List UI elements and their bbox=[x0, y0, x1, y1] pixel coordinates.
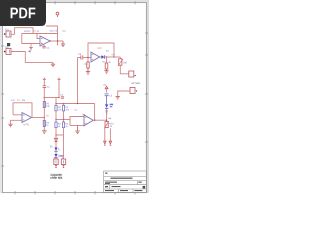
connector J2 bbox=[4, 46, 11, 54]
junction U2 tip bbox=[99, 56, 100, 57]
wire node A vertical rail bbox=[77, 58, 79, 104]
resistor R12 bbox=[62, 120, 68, 128]
frame tick marks left bbox=[1, 46, 4, 166]
wire R9 down bbox=[55, 111, 57, 120]
wire J1 elbow bbox=[11, 28, 33, 35]
wire C5 to D5 bbox=[106, 96, 108, 105]
title block texts bbox=[105, 173, 142, 192]
LED D3 bbox=[54, 142, 59, 152]
connector J4 bbox=[54, 157, 59, 166]
trimmer R16 bbox=[104, 121, 113, 128]
wire rail C2 down to ground bbox=[43, 87, 45, 130]
label VCC bbox=[50, 30, 52, 32]
wire R10 down bbox=[63, 111, 65, 120]
wire VCC1 rail bbox=[46, 26, 58, 46]
capacitor C4 input bbox=[78, 53, 92, 59]
junction low rail bbox=[55, 134, 56, 135]
wire U2 output bbox=[104, 56, 114, 58]
label R3 feedback bbox=[96, 47, 99, 49]
op-amp U2 feedback resistor loop bbox=[88, 43, 114, 58]
wire chains to low rail bbox=[55, 128, 57, 135]
ground GND1 bbox=[61, 41, 65, 47]
label +5V bbox=[62, 30, 63, 31]
op-amp U3 feedback loop bbox=[13, 103, 32, 118]
connector J5 bbox=[61, 157, 65, 166]
PDF badge bbox=[0, 0, 46, 26]
junction U4 output feedback bbox=[94, 120, 95, 121]
connector J1 bbox=[4, 29, 11, 37]
junction U1 output node bbox=[57, 40, 58, 41]
LED D5 bbox=[105, 104, 113, 114]
title block bbox=[104, 171, 147, 193]
wire U1 feedback rail bbox=[22, 33, 58, 35]
trimmer R8 bbox=[114, 57, 127, 66]
wire U4 lower input bbox=[70, 125, 84, 127]
wire right chain down bbox=[63, 135, 65, 159]
wire U3 output bbox=[32, 117, 45, 119]
diode D2 bbox=[54, 135, 57, 142]
op-amp U3 bbox=[22, 113, 32, 123]
power VCC2 arrow bbox=[105, 86, 108, 92]
power VEE1 arrow bbox=[104, 141, 106, 145]
wire U1 plus input drop bbox=[22, 34, 40, 44]
resistor R7 to ground bbox=[103, 57, 111, 69]
label uA meter bbox=[130, 83, 133, 84]
resistor R11 bbox=[55, 120, 61, 128]
junction feedback output bbox=[113, 56, 114, 57]
LED D4 bbox=[54, 151, 59, 158]
junction output LED chain bbox=[106, 120, 107, 121]
label R14 bbox=[17, 99, 18, 101]
label U4 ref bbox=[75, 109, 76, 111]
op-amp U2 bbox=[91, 52, 100, 62]
resistor R5 on rail bbox=[43, 102, 50, 108]
pin dot J4 bbox=[55, 166, 57, 168]
gray margin top bbox=[0, 0, 149, 2]
wire D5 down bbox=[106, 108, 108, 121]
page background bbox=[0, 0, 149, 198]
terminal post T2 bbox=[58, 78, 61, 80]
gray margin left bbox=[0, 2, 2, 193]
label node 0 bbox=[29, 51, 31, 53]
op-amp U4 bbox=[84, 115, 93, 126]
ground GND7 bbox=[116, 97, 120, 100]
label R2 bbox=[33, 30, 34, 32]
label R2 value bbox=[36, 30, 39, 32]
op-amp U1 bbox=[40, 36, 50, 46]
switch S1 body bbox=[7, 43, 10, 46]
capacitor C1 under U1 bbox=[42, 45, 49, 49]
label R1 value row bbox=[23, 31, 26, 32]
junction U2 input node bbox=[87, 57, 88, 58]
wire R16 right leg bbox=[109, 128, 111, 141]
ground GND4 bbox=[42, 131, 46, 134]
wire R8 to J3 bbox=[120, 65, 129, 74]
power VCC1 +5V bbox=[56, 12, 59, 17]
label U3 ua741 bbox=[22, 124, 25, 125]
wire U4 output bbox=[93, 119, 106, 121]
ground GND2 bbox=[51, 63, 55, 67]
label cal bbox=[111, 54, 114, 55]
junction mid rail left bbox=[55, 119, 56, 120]
ground GND3 bbox=[86, 68, 90, 74]
resistor R10 bbox=[62, 104, 69, 111]
frame tick marks top bbox=[35, 1, 135, 4]
label D2 bbox=[50, 146, 51, 148]
capacitor C3 marks bbox=[61, 97, 64, 98]
junction top rail node A bbox=[77, 103, 78, 104]
label LED2 value bbox=[60, 155, 64, 156]
ground GND5 bbox=[8, 124, 12, 127]
wire rail y97 bbox=[44, 97, 59, 99]
ground GND9 bbox=[29, 44, 33, 51]
label VCC2 bbox=[103, 84, 104, 86]
sheet border frame bbox=[2, 3, 146, 193]
capacitor C5 bbox=[105, 94, 112, 97]
wire U3 noninverting input bbox=[11, 120, 23, 124]
wire J6 down bbox=[118, 91, 130, 97]
label R13 bbox=[11, 99, 12, 101]
wire U4 input bridge bbox=[70, 117, 84, 126]
gray margin right bbox=[147, 0, 149, 193]
wire low rail bbox=[56, 134, 64, 136]
junction T2 rail bbox=[58, 97, 59, 98]
caption capacitor under test bbox=[50, 173, 62, 178]
wire U1 output bbox=[50, 40, 63, 42]
label U4 part bbox=[81, 114, 84, 116]
ground GND6 bbox=[75, 126, 79, 134]
connector J3 uA meter bbox=[129, 71, 136, 77]
junction U1 tip bbox=[50, 40, 51, 41]
wire J2 down to ground rail bbox=[11, 52, 53, 63]
wire chain top rail bbox=[56, 103, 95, 105]
resistor R6 on rail bbox=[43, 121, 49, 127]
title block corner mark bbox=[143, 186, 146, 189]
wire to chain top bbox=[55, 98, 57, 104]
frame tick marks right bbox=[145, 33, 148, 142]
wire T1 down bbox=[43, 79, 45, 86]
capacitor C2 bbox=[43, 86, 50, 88]
junction mid rail right bbox=[63, 119, 64, 120]
junction top rail right bbox=[63, 103, 64, 104]
terminal post T1 bbox=[43, 78, 46, 80]
wire U4 feedback vertical bbox=[94, 104, 96, 121]
wire R16 left leg bbox=[104, 128, 106, 142]
wire U1 inverting input bbox=[37, 34, 40, 39]
wire mid rail bbox=[56, 119, 70, 121]
junction rail crossing bbox=[44, 97, 45, 98]
connector J6 bbox=[130, 88, 137, 94]
junction U3 output node bbox=[44, 117, 45, 118]
label Vo bbox=[46, 115, 47, 117]
label adj bbox=[108, 118, 109, 119]
wire T2 down bbox=[58, 79, 60, 97]
resistor R4 to ground bbox=[85, 58, 90, 68]
frame tick marks bottom bbox=[15, 191, 135, 194]
wire U3 inverting input bbox=[13, 114, 22, 116]
diode D1 LED bbox=[100, 50, 109, 59]
ground GND8 bbox=[104, 69, 108, 73]
junction top rail left bbox=[55, 103, 56, 104]
wire D4 to J4 bbox=[55, 158, 57, 159]
resistor R9 bbox=[55, 104, 62, 111]
wire right chain to low rail bbox=[63, 128, 65, 135]
label C3 bbox=[60, 94, 61, 96]
junction R7 tap bbox=[106, 56, 107, 57]
pin dot J5 bbox=[63, 166, 65, 168]
label R15 bbox=[21, 99, 24, 101]
power VEE2 arrow bbox=[109, 141, 111, 145]
